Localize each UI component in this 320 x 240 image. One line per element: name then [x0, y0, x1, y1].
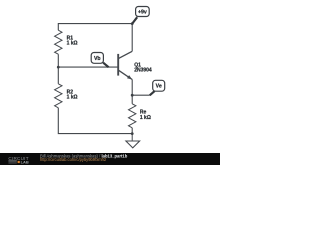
- svg-text:1 kΩ: 1 kΩ: [140, 115, 151, 121]
- wire Ve junction to Re top: [131, 95, 133, 104]
- svg-text:1 kΩ: 1 kΩ: [67, 95, 78, 101]
- junction dot at +9v corner: [131, 22, 134, 25]
- junction dot at Vb node: [57, 66, 60, 69]
- node Ve flag: [150, 80, 165, 95]
- node +9v flag: [132, 7, 149, 24]
- wire top rail from R1 top to collector column: [58, 24, 132, 52]
- junction dot at ground node: [131, 132, 134, 135]
- transistor Q1 collector diagonal: [119, 51, 133, 58]
- wire Ve tap horizontal: [132, 94, 150, 96]
- wire R2 bottom to bottom rail and to ground junction: [58, 108, 132, 134]
- watermark bar: [0, 153, 220, 165]
- wire Re bottom to ground junction: [131, 128, 133, 134]
- wire base: junction to Q1 base: [58, 66, 118, 68]
- wire R1 bottom to node Vb junction: [57, 54, 59, 67]
- transistor Q1 emitter arrowhead: [127, 75, 132, 79]
- junction dot at Ve node: [131, 94, 134, 97]
- svg-text:2N3904: 2N3904: [134, 67, 152, 73]
- node Vb flag: [91, 53, 108, 68]
- svg-text:Ve: Ve: [156, 84, 162, 90]
- resistor Re: [129, 104, 136, 128]
- svg-text:http://circuitlab.com/c/py5y9b: http://circuitlab.com/c/py5y9b9fxmh2: [40, 157, 107, 162]
- wire R2 top stub: [57, 67, 59, 84]
- svg-text:+9v: +9v: [138, 9, 147, 15]
- transistor Q1 emitter diagonal: [119, 70, 133, 79]
- resistor R1: [55, 30, 62, 54]
- svg-text:1 kΩ: 1 kΩ: [67, 41, 78, 47]
- svg-text:Vb: Vb: [94, 56, 101, 62]
- wire emitter vertical to Ve junction: [131, 80, 133, 96]
- watermark CircuitLab logo: [8, 156, 29, 165]
- ground: [126, 134, 140, 148]
- resistor R2: [55, 84, 62, 108]
- transistor Q1 base bar: [117, 54, 119, 76]
- svg-text:LAB: LAB: [21, 159, 29, 164]
